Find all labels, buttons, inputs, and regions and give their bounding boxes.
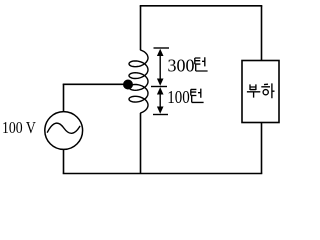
wire: right branch upper (top wire down to load box) [261, 6, 263, 61]
dimension arrow: 300-turn section (top bar, double-headed arrow, mid bar) [151, 48, 169, 87]
svg-text:100: 100 [167, 87, 190, 107]
wire: top horizontal (coil top to load branch) [140, 5, 263, 7]
load box (resistor block) [242, 61, 279, 123]
wire: tap horizontal (source to coil tap) [63, 83, 125, 85]
label 100 V (source voltage) [2, 118, 36, 137]
wire: left branch upper (tap wire down to source) [63, 84, 65, 111]
AC source sine wave [47, 123, 79, 133]
node: tap junction dot [123, 80, 133, 90]
wire: middle branch top (top wire down to coil) [140, 6, 142, 50]
AC source V1 (circle) [45, 112, 83, 150]
svg-text:300: 300 [168, 56, 195, 76]
inductor coil L1 (autotransformer winding, 5 loops) [129, 50, 148, 113]
wire: left branch lower (source to bottom wire) [63, 149, 65, 173]
wire: middle branch bottom (coil to bottom wire) [140, 113, 142, 174]
wire: right branch lower (load box to bottom wire) [261, 123, 263, 174]
label 100턴 (100 turns) [167, 87, 203, 107]
dimension arrow: 100-turn section (double-headed arrow, bottom bar) [153, 87, 168, 114]
svg-text:100 V: 100 V [2, 118, 36, 137]
label 부하 (load) hangul strokes [247, 83, 275, 98]
wire: bottom horizontal [63, 173, 263, 175]
label 300턴 (300 turns) [168, 56, 208, 76]
